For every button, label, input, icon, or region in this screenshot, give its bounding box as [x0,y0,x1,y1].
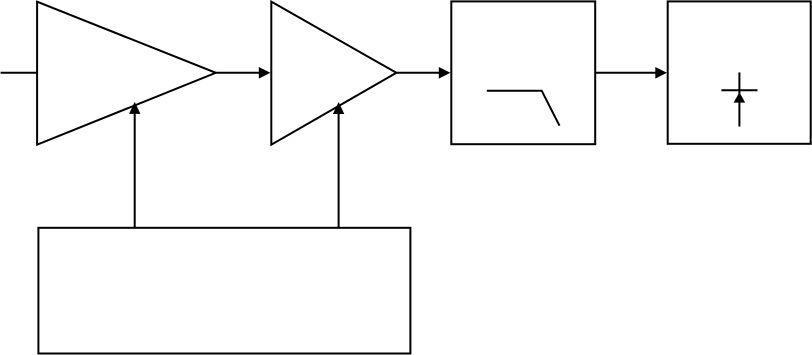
gain control arrow 1 [129,102,140,228]
gain control arrow 2 [333,102,344,228]
wire filter to sampler [595,67,667,79]
low-pass filter block [451,1,595,144]
wire input [1,72,38,74]
wire A2 to filter [396,67,450,79]
control block [38,228,410,354]
amplifier A2 [271,2,396,145]
wire A1 to A2 [216,67,271,79]
sampler symbol [721,72,757,126]
filter response curve [487,91,560,126]
amplifier A1 [37,2,216,145]
sampler block [668,1,811,143]
